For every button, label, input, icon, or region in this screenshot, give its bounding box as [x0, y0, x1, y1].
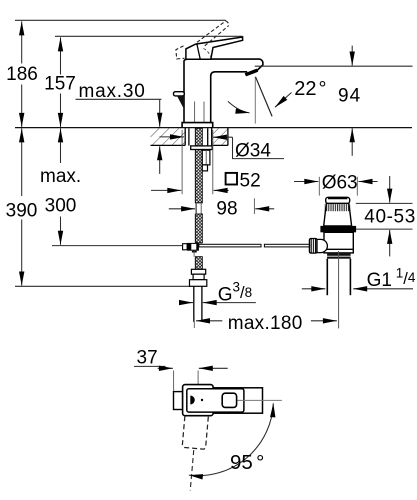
lever dashed outline at left [176, 46, 185, 59]
top view: aerator square [222, 393, 236, 407]
rod attachment knob [309, 239, 317, 254]
dimension Ø34 [160, 137, 285, 162]
svg-text:300: 300 [45, 196, 77, 217]
pop-up waste stopper plug [326, 197, 350, 203]
svg-text:max.30: max.30 [79, 81, 146, 102]
top view: center line [238, 399, 282, 401]
dimension square52 [151, 171, 261, 192]
dimension max.180 [194, 313, 337, 334]
dimension 390 [6, 128, 38, 285]
aerator (spout outlet) [245, 69, 259, 77]
linkage rod to drain [199, 244, 310, 247]
tailpipe [327, 251, 350, 328]
stream arc arrow [228, 101, 250, 113]
dimension 94 [338, 46, 361, 156]
svg-text:390: 390 [6, 201, 38, 222]
label G1 1/4 [302, 265, 416, 291]
lever handle (solid) [186, 37, 243, 59]
faucet body column [184, 60, 211, 122]
drain Ø63 extension lines [318, 177, 320, 196]
rod connector [317, 239, 327, 252]
dimension 40-53 [356, 176, 416, 256]
390 reference line (hose connection level) [15, 285, 190, 287]
faucet head and spout [184, 59, 263, 70]
dimension max.300 [40, 128, 81, 244]
waste clamp body [324, 232, 353, 253]
svg-text:94: 94 [338, 86, 361, 107]
mounting nut [202, 150, 210, 171]
svg-text:max.180: max.180 [228, 313, 303, 334]
svg-text:Ø34: Ø34 [235, 141, 271, 162]
top view: dimension 37 [134, 348, 228, 391]
swivel arc 95 [189, 403, 273, 475]
threaded rod segment 4 [195, 257, 202, 270]
svg-text:98: 98 [216, 198, 237, 219]
counter top line [15, 127, 412, 129]
max.300 reference line (hose level) [52, 245, 183, 247]
spout height reference line [255, 65, 413, 67]
angle 22 leader [275, 78, 327, 107]
top view: base square [183, 385, 214, 416]
svg-text:52: 52 [240, 171, 261, 192]
top view: swung lever dashed [178, 388, 210, 491]
top view: lever blade [187, 389, 244, 412]
counter slab right (hatched) [212, 128, 228, 146]
svg-text:186: 186 [6, 64, 38, 85]
svg-text:Ø63: Ø63 [322, 172, 358, 193]
top view: pull rod hole (black D) [190, 396, 195, 405]
dimension square52 extension lines [181, 130, 183, 194]
lever raised position (dashed) [197, 21, 229, 46]
top reference line 1 (max lever height) [15, 19, 226, 21]
waste flange body [324, 203, 352, 226]
top view: pull rod tab [174, 392, 183, 410]
rubber seal band [320, 226, 356, 232]
counter slab left (hatched) [151, 128, 186, 146]
dimension 98 [169, 198, 274, 219]
svg-text:max.: max. [40, 166, 81, 187]
svg-text:95°: 95° [230, 451, 264, 474]
pull rod knob [174, 92, 185, 111]
svg-text:40-53: 40-53 [364, 206, 416, 227]
G3/8 hose nut [190, 269, 207, 286]
threaded rod segment 2 [195, 150, 202, 203]
horseshoe washer [191, 146, 213, 150]
threaded rod segment 1 [195, 128, 202, 146]
stream vertical reference [254, 77, 256, 124]
waste bottom band [327, 253, 351, 256]
dimension 157 [44, 37, 76, 127]
svg-text:22°: 22° [294, 78, 326, 100]
dimension 186 [6, 21, 38, 127]
top reference line 2 (lever tip) [55, 35, 243, 37]
label G3/8 [180, 280, 256, 306]
top view: spout block [213, 388, 262, 413]
mounting shank tubes in counter hole [189, 128, 208, 145]
svg-text:37: 37 [137, 348, 158, 369]
dimension max.30 [76, 81, 162, 174]
pull rod linkage block [183, 243, 199, 257]
base plate (escutcheon) [182, 123, 213, 128]
threaded rod segment 3 [195, 214, 202, 243]
svg-text:157: 157 [44, 74, 76, 95]
supply hose [194, 286, 202, 322]
dimension Ø63 [294, 172, 378, 193]
stream angled line [256, 77, 273, 117]
threaded rod thin section [195, 203, 197, 214]
